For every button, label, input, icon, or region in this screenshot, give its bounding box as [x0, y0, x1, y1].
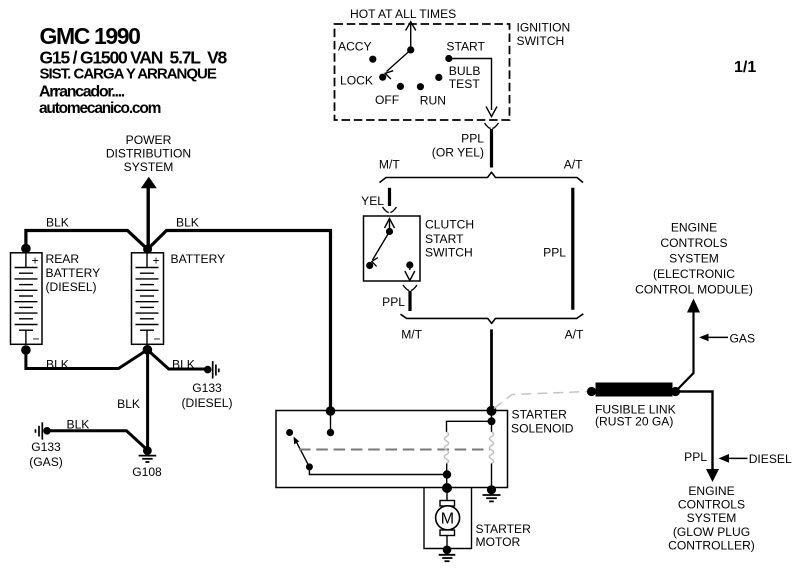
- svg-text:ACCY: ACCY: [338, 40, 372, 54]
- wire from merge to starter solenoid: [490, 329, 493, 411]
- svg-text:DIESEL: DIESEL: [749, 452, 792, 466]
- svg-text:M/T: M/T: [379, 158, 400, 172]
- fusible link F1: [587, 383, 680, 397]
- svg-text:ENGINE: ENGINE: [671, 221, 717, 235]
- split brace M/T A/T: [380, 172, 584, 182]
- svg-text:BULB: BULB: [449, 64, 481, 78]
- svg-text:SOLENOID: SOLENOID: [511, 422, 574, 436]
- wire PPL (OR YEL): [490, 129, 493, 168]
- svg-text:1/1: 1/1: [734, 59, 756, 76]
- svg-text:GAS: GAS: [730, 332, 756, 346]
- svg-text:CONTROLS: CONTROLS: [678, 498, 745, 512]
- node motor feed at box bottom: [442, 483, 452, 493]
- battery B1: [132, 253, 164, 346]
- label G133 (GAS): [29, 440, 63, 469]
- wire fusible link to ECM (gas): [676, 311, 694, 392]
- rear battery B2: [11, 253, 43, 346]
- starter motor enclosure: [424, 488, 472, 549]
- fusible link label: [595, 403, 676, 429]
- svg-text:PPL: PPL: [543, 246, 566, 260]
- svg-text:+: +: [32, 254, 39, 268]
- wire coil junction to box bottom: [446, 464, 448, 489]
- solenoid mechanical linkage (dashed): [299, 449, 490, 451]
- wire rear battery to battery positive: [26, 231, 148, 250]
- svg-text:(ELECTRONIC: (ELECTRONIC: [653, 267, 735, 281]
- svg-text:SIST. CARGA Y ARRANQUE: SIST. CARGA Y ARRANQUE: [40, 66, 217, 83]
- solenoid switch arm: [294, 437, 310, 467]
- svg-text:SWITCH: SWITCH: [425, 246, 473, 260]
- svg-text:G108: G108: [132, 465, 162, 479]
- solenoid coil feed contact: [488, 417, 496, 425]
- svg-text:G133: G133: [192, 381, 222, 395]
- svg-text:(DIESEL): (DIESEL): [46, 280, 97, 294]
- ground at solenoid case: [483, 485, 501, 501]
- svg-text:(OR YEL): (OR YEL): [432, 146, 484, 160]
- collector below clutch start switch: [403, 285, 417, 291]
- svg-text:SYSTEM: SYSTEM: [124, 160, 174, 174]
- wire fusible link to glow plug controller (diesel): [676, 392, 713, 471]
- ground G133 (GAS): [36, 422, 51, 439]
- svg-text:OFF: OFF: [375, 93, 399, 107]
- solenoid switch moving contact: [306, 463, 313, 470]
- svg-text:M/T: M/T: [401, 328, 422, 342]
- svg-text:YEL: YEL: [361, 194, 384, 208]
- svg-text:GMC 1990: GMC 1990: [40, 23, 141, 49]
- svg-text:(GLOW PLUG: (GLOW PLUG: [673, 525, 750, 539]
- OFF position: [375, 83, 404, 107]
- merge brace M/T A/T: [401, 314, 584, 324]
- node rear battery positive: [21, 244, 31, 254]
- RUN position: [417, 83, 446, 108]
- svg-text:IGNITION: IGNITION: [517, 21, 571, 35]
- clutch switch pivot contact: [386, 228, 393, 235]
- collector above clutch start switch: [383, 207, 397, 213]
- wire battery positive to starter solenoid: [148, 231, 331, 412]
- svg-text:CLUTCH: CLUTCH: [425, 218, 474, 232]
- svg-text:A/T: A/T: [564, 158, 583, 172]
- clutch switch arm: [372, 232, 390, 267]
- svg-text:BATTERY: BATTERY: [171, 252, 226, 266]
- solenoid pull-in winding: [444, 432, 448, 464]
- POWER DISTRIBUTION SYSTEM label: [106, 133, 191, 174]
- ignition switch dashed box: [335, 24, 510, 120]
- wire PPL below clutch switch: [408, 291, 411, 311]
- svg-text:DISTRIBUTION: DISTRIBUTION: [106, 146, 191, 160]
- svg-text:HOT AT ALL TIMES: HOT AT ALL TIMES: [350, 7, 456, 21]
- engine controls system (ECM) label: [635, 221, 753, 297]
- BULB TEST position: [435, 64, 480, 91]
- wire G133 gas to G108: [47, 431, 147, 450]
- arrow to engine controls system (gas): [687, 299, 700, 313]
- wire coil feed to pull-in winding: [447, 421, 492, 432]
- svg-text:BLK: BLK: [46, 216, 69, 230]
- arrow to power distribution system: [141, 177, 157, 188]
- GAS pointer arrow: [699, 334, 728, 342]
- title block: [39, 23, 228, 117]
- svg-text:REAR: REAR: [46, 252, 80, 266]
- node battery feed at solenoid: [326, 406, 336, 416]
- svg-text:CONTROLLER): CONTROLLER): [668, 538, 755, 552]
- label G133 (DIESEL): [181, 381, 232, 410]
- wire battery feed inside solenoid: [330, 411, 332, 433]
- starter motor M1: [436, 501, 460, 536]
- svg-text:MOTOR: MOTOR: [476, 535, 521, 549]
- arrow to engine controls system (diesel): [706, 469, 719, 482]
- clutch switch lower contact: [366, 262, 373, 269]
- svg-text:POWER: POWER: [126, 133, 172, 147]
- solenoid B+ contact: [327, 429, 334, 436]
- svg-text:−: −: [33, 332, 40, 346]
- node PPL feed at solenoid: [487, 406, 497, 416]
- ignition switch pivot contact: [407, 46, 414, 53]
- svg-text:SWITCH: SWITCH: [517, 34, 565, 48]
- starter solenoid box: [276, 411, 508, 488]
- DIESEL pointer arrow: [719, 454, 748, 463]
- svg-text:START: START: [425, 232, 464, 246]
- svg-text:STARTER: STARTER: [476, 522, 532, 536]
- ignition switch arm to LOCK: [385, 50, 411, 79]
- clutch switch output arrow through box bottom: [405, 265, 415, 281]
- svg-text:−: −: [154, 332, 161, 346]
- svg-text:M: M: [441, 510, 454, 527]
- solenoid hold-in winding: [489, 432, 493, 464]
- svg-text:ENGINE: ENGINE: [688, 484, 734, 498]
- svg-text:START: START: [446, 40, 485, 54]
- collector symbol below ignition switch: [485, 123, 499, 129]
- svg-text:BLK: BLK: [176, 216, 199, 230]
- engine controls system (glow plug) label: [668, 484, 755, 552]
- svg-text:BATTERY: BATTERY: [46, 266, 101, 280]
- node battery negative junction: [143, 345, 153, 355]
- svg-text:CONTROLS: CONTROLS: [660, 236, 727, 250]
- wire from START out of ignition switch: [449, 59, 497, 117]
- svg-text:A/T: A/T: [565, 328, 584, 342]
- svg-text:G133: G133: [31, 440, 61, 454]
- svg-text:SYSTEM: SYSTEM: [687, 511, 737, 525]
- ground at starter motor: [439, 546, 456, 562]
- svg-text:SYSTEM: SYSTEM: [669, 252, 719, 266]
- wire YEL: [388, 188, 391, 206]
- clutch start switch box: [364, 216, 421, 281]
- wire battery negative to G133 diesel: [147, 350, 207, 369]
- dashed feed wire to fusible link: [494, 392, 588, 409]
- svg-text:(RUST 20 GA): (RUST 20 GA): [595, 414, 673, 428]
- svg-text:BLK: BLK: [117, 397, 140, 411]
- solenoid switch fixed contact: [286, 429, 293, 436]
- svg-text:G15 / G1500 VAN 5.7L V8: G15 / G1500 VAN 5.7L V8: [40, 48, 228, 68]
- svg-text:Arrancador....: Arrancador....: [39, 84, 125, 101]
- svg-text:LOCK: LOCK: [340, 73, 373, 87]
- svg-text:(DIESEL): (DIESEL): [181, 396, 232, 410]
- wire PPL feed inside solenoid: [491, 411, 493, 432]
- clutch switch input arrow: [385, 219, 395, 232]
- wire solenoid switch to coil junction: [309, 467, 447, 475]
- svg-text:automecanico.com: automecanico.com: [39, 100, 161, 117]
- svg-text:PPL: PPL: [382, 295, 405, 309]
- wire hold-in winding to ground: [491, 464, 493, 490]
- rear battery label: [46, 252, 101, 294]
- wire battery negative to G108: [146, 350, 149, 450]
- wire ignition feed up to HOT AT ALL TIMES: [406, 22, 416, 50]
- svg-text:TEST: TEST: [449, 77, 481, 91]
- node coil to switch-wire junction: [443, 470, 451, 478]
- svg-text:PPL: PPL: [684, 450, 707, 464]
- LOCK position: [340, 73, 386, 87]
- svg-text:STARTER: STARTER: [512, 408, 568, 422]
- svg-text:(GAS): (GAS): [29, 455, 63, 469]
- wire battery to power distribution: [146, 186, 149, 249]
- svg-text:RUN: RUN: [420, 94, 446, 108]
- svg-text:CONTROL MODULE): CONTROL MODULE): [635, 283, 753, 297]
- ground G108: [139, 446, 157, 462]
- START position: [445, 40, 485, 63]
- ACCY position: [338, 40, 376, 63]
- node rear battery negative: [21, 345, 31, 355]
- svg-text:+: +: [153, 254, 160, 268]
- node battery positive junction: [143, 245, 152, 254]
- wire solenoid to starter motor: [446, 488, 448, 549]
- wire rear battery negative to battery negative: [26, 350, 147, 369]
- ground G133 (DIESEL): [204, 361, 219, 379]
- wire PPL A/T branch: [571, 188, 574, 310]
- clutch switch output contact: [406, 261, 413, 268]
- svg-text:PPL: PPL: [461, 132, 484, 146]
